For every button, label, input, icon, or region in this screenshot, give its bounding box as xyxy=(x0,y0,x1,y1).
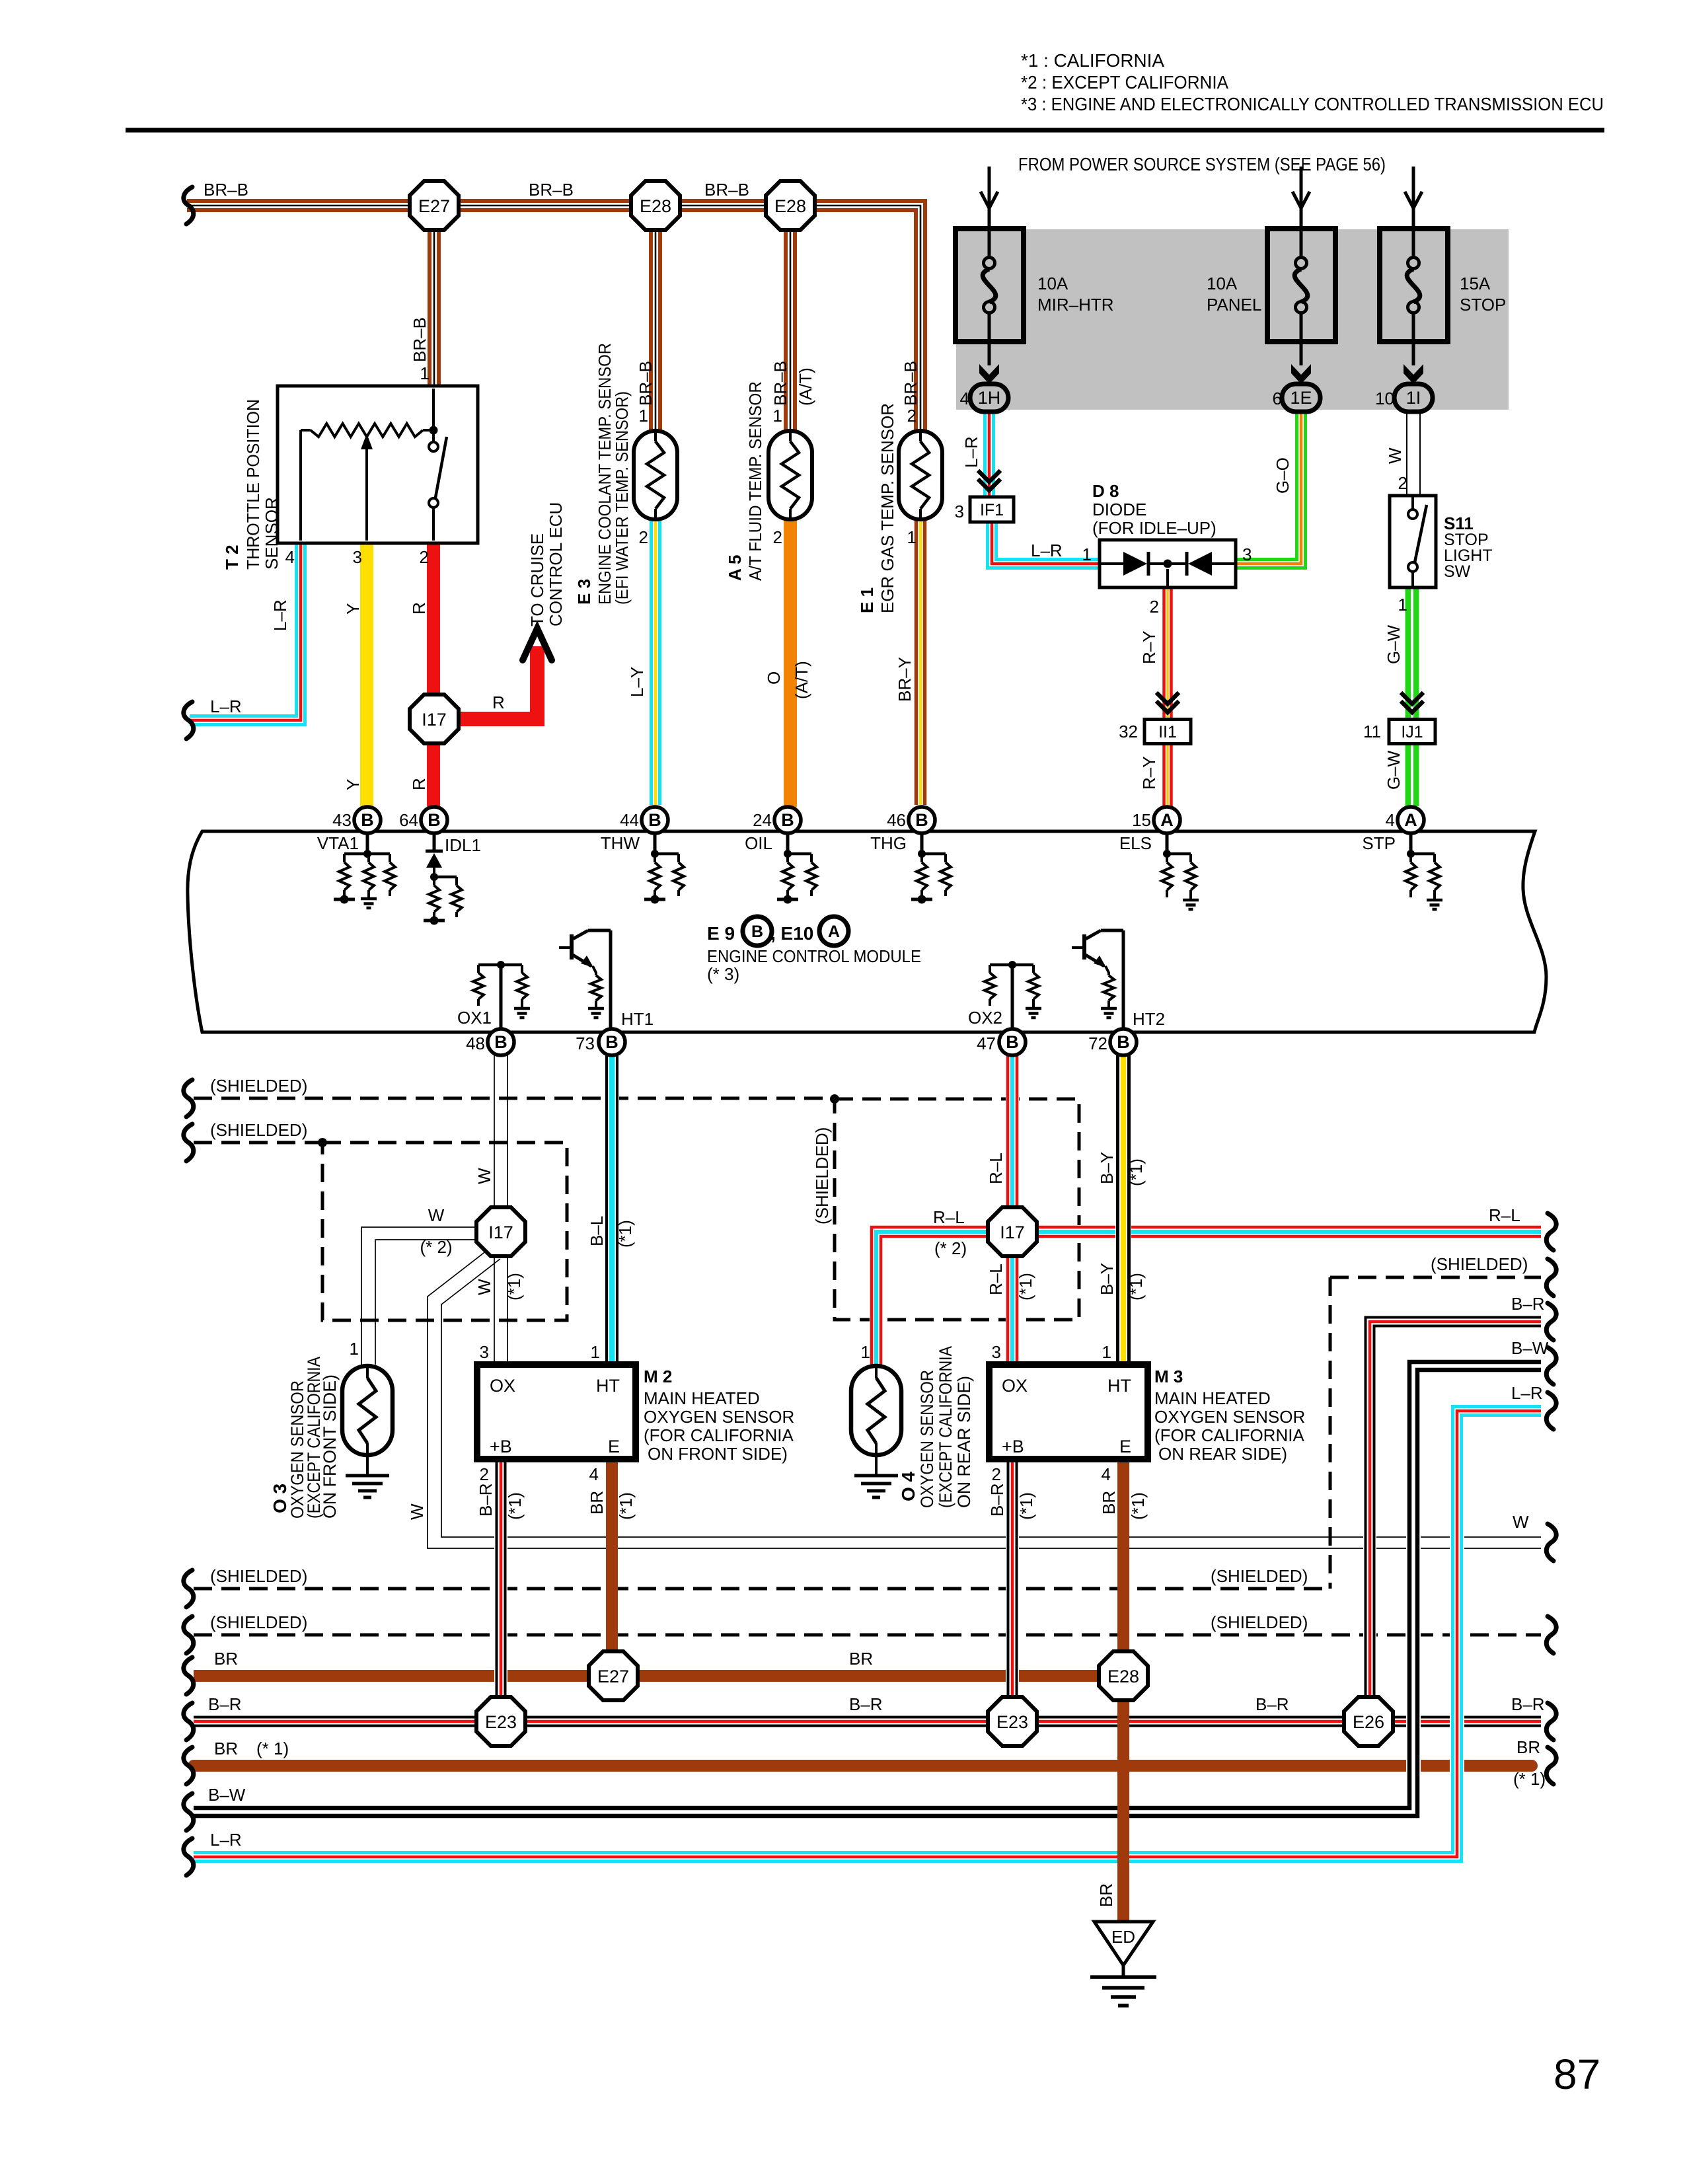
wire R branch to cruise control xyxy=(456,646,537,719)
svg-text:1: 1 xyxy=(773,406,782,426)
svg-text:4: 4 xyxy=(960,389,969,408)
wire W from I17 to O3 line b xyxy=(375,1240,478,1365)
svg-text:(FOR IDLE–UP): (FOR IDLE–UP) xyxy=(1092,518,1217,538)
svg-text:(SHIELDED): (SHIELDED) xyxy=(210,1076,307,1096)
svg-text:IF1: IF1 xyxy=(980,501,1004,519)
svg-text:2: 2 xyxy=(773,527,782,547)
connector I17 on R wire xyxy=(410,695,459,743)
O4 oxygen sensor except california rear xyxy=(851,1366,901,1455)
svg-text:(SHIELDED): (SHIELDED) xyxy=(210,1566,307,1586)
M2 main heated oxygen sensor box xyxy=(477,1365,636,1459)
svg-text:O: O xyxy=(764,671,784,685)
svg-text:2: 2 xyxy=(907,406,917,426)
svg-text:B: B xyxy=(648,810,661,830)
svg-text:II1: II1 xyxy=(1158,723,1177,741)
wire B-R right corner xyxy=(1366,1318,1542,1722)
pin 73 HT1 xyxy=(599,1029,625,1055)
ECU OX1 input circuit xyxy=(473,961,527,1032)
svg-text:W: W xyxy=(428,1205,445,1225)
brace L-R right xyxy=(1546,1392,1556,1429)
svg-text:43: 43 xyxy=(332,810,352,830)
svg-text:3: 3 xyxy=(1242,545,1252,564)
connector E23 b xyxy=(988,1697,1037,1746)
E9 connector B circle xyxy=(743,917,772,946)
svg-text:OX1: OX1 xyxy=(457,1008,492,1028)
wire L-R bus bottom xyxy=(194,1407,1541,1862)
brace BR-B bus xyxy=(184,187,194,224)
wire B-Y from HT2 to M3 HT xyxy=(1118,1055,1129,1365)
svg-text:B: B xyxy=(915,810,928,830)
brace shielded 1 xyxy=(184,1080,194,1117)
svg-text:MIR–HTR: MIR–HTR xyxy=(1037,295,1114,315)
brace shielded 2 xyxy=(184,1124,194,1161)
svg-text:(*1): (*1) xyxy=(1126,1273,1146,1300)
T2 switch feed from pin1 xyxy=(432,389,435,441)
junction dot on dashed line 1 xyxy=(830,1094,839,1104)
svg-text:1E: 1E xyxy=(1290,388,1312,408)
ECU ELS input circuit xyxy=(1162,833,1199,909)
svg-text:THG: THG xyxy=(870,833,907,853)
svg-text:L–R: L–R xyxy=(1511,1383,1543,1403)
svg-text:A: A xyxy=(1404,810,1417,830)
svg-text:B: B xyxy=(428,810,441,830)
svg-text:IJ1: IJ1 xyxy=(1401,723,1423,741)
ECU STP input circuit xyxy=(1405,833,1442,909)
svg-text:10: 10 xyxy=(1375,389,1394,408)
svg-text:15: 15 xyxy=(1132,810,1151,830)
svg-text:HT: HT xyxy=(1107,1376,1131,1396)
wire W shield drain diagonal a xyxy=(428,1251,1541,1548)
svg-text:SENSOR: SENSOR xyxy=(262,497,281,570)
svg-text:3: 3 xyxy=(480,1342,489,1362)
wire W pair OX1 to I17 xyxy=(494,1055,495,1209)
svg-text:OX2: OX2 xyxy=(968,1008,1002,1028)
ECU VTA1 input circuit xyxy=(334,833,395,904)
chevron into IF1 xyxy=(978,471,1000,490)
svg-text:BR: BR xyxy=(1516,1737,1540,1757)
power feed arrow PANEL xyxy=(1292,167,1310,229)
pin 47 OX2 xyxy=(999,1029,1026,1055)
ECU OX2 input circuit xyxy=(985,961,1039,1032)
wire W pair I17 to M2 OX xyxy=(494,1254,495,1365)
ECU E9/E10 engine control module box xyxy=(188,831,1546,1032)
ECU HT2 driver transistor xyxy=(1072,930,1123,1032)
svg-text:THW: THW xyxy=(601,833,640,853)
ECU HT1 driver transistor xyxy=(559,930,611,1032)
svg-text:B–R: B–R xyxy=(1255,1694,1289,1714)
chevron into IJ1 xyxy=(1401,693,1423,712)
svg-text:B: B xyxy=(781,810,794,830)
svg-text:BR: BR xyxy=(1096,1883,1116,1907)
svg-text:T 2: T 2 xyxy=(222,545,242,570)
wire R-Y from II1 to ECU pin 15 xyxy=(1164,743,1172,806)
wire BR-B drop to T2 pin1 xyxy=(430,206,439,389)
svg-text:(*1): (*1) xyxy=(1016,1492,1036,1520)
shielded dashed line bottom A xyxy=(194,1587,1330,1591)
svg-text:B: B xyxy=(751,923,763,941)
brace L-R T2 xyxy=(184,702,194,739)
ECU STP left leg end xyxy=(1409,890,1412,896)
svg-text:3: 3 xyxy=(955,502,964,521)
wire B-R from M2 +B xyxy=(497,1459,505,1721)
svg-text:B–R: B–R xyxy=(849,1694,883,1714)
wire R-L from OX2 through I17 to M3 OX xyxy=(1008,1055,1017,1365)
svg-text:OX: OX xyxy=(1002,1376,1028,1396)
arrowhead to cruise control ECU xyxy=(523,628,552,660)
svg-text:E 3: E 3 xyxy=(574,579,594,605)
svg-text:E23: E23 xyxy=(996,1712,1028,1732)
svg-text:BR: BR xyxy=(587,1491,607,1515)
power source gray block xyxy=(956,229,1509,410)
power feed arrow STOP xyxy=(1405,167,1422,229)
connector I17 oxygen front xyxy=(476,1207,525,1256)
svg-text:R–Y: R–Y xyxy=(1139,630,1159,664)
svg-text:R: R xyxy=(409,778,429,790)
wire G-W from S11 to IJ1 xyxy=(1408,587,1416,718)
E10 connector A circle xyxy=(819,917,848,946)
svg-text:HT: HT xyxy=(596,1376,620,1396)
wire BR-B bus top xyxy=(187,201,925,431)
brace shielded right xyxy=(1546,1259,1556,1296)
brace shielded B right xyxy=(1546,1616,1556,1653)
svg-text:1: 1 xyxy=(861,1342,870,1362)
connector 1I xyxy=(1394,384,1433,412)
svg-text:72: 72 xyxy=(1088,1034,1107,1053)
connector E28 top a xyxy=(631,181,680,230)
D8 diode for idle-up box xyxy=(1100,540,1236,587)
wire BR-B drop to E3 xyxy=(651,206,660,433)
svg-text:(FOR CALIFORNIA: (FOR CALIFORNIA xyxy=(644,1425,794,1445)
shielded dashed vertical right xyxy=(1329,1277,1332,1589)
wire BR-B drop to A5 xyxy=(786,206,795,433)
ED ground triangle xyxy=(1094,1922,1153,1976)
T2 wiper arrow xyxy=(365,447,368,541)
brace B-R bus xyxy=(184,1703,194,1740)
wire R from T2 pin2 xyxy=(427,541,440,805)
ED ground symbol xyxy=(1090,1977,1156,2006)
svg-text:E27: E27 xyxy=(597,1667,629,1686)
svg-text:R–L: R–L xyxy=(1489,1205,1520,1225)
connector 1H xyxy=(970,384,1008,412)
svg-text:I17: I17 xyxy=(422,710,447,730)
T2 potentiometer left leg xyxy=(299,430,302,541)
svg-text:SW: SW xyxy=(1444,562,1471,581)
svg-text:W: W xyxy=(474,1279,494,1295)
svg-text:4: 4 xyxy=(1102,1464,1111,1484)
svg-text:B: B xyxy=(1006,1032,1019,1052)
svg-text:ED: ED xyxy=(1111,1927,1135,1947)
ECU VTA1 ground xyxy=(361,899,377,908)
svg-text:W: W xyxy=(1385,447,1405,464)
pin 43 VTA1 xyxy=(354,807,381,833)
svg-text:B: B xyxy=(361,810,374,830)
svg-text:G–W: G–W xyxy=(1384,624,1404,664)
wire B-W bus bottom xyxy=(194,1362,1541,1816)
svg-text:R: R xyxy=(409,602,429,615)
svg-text:A/T FLUID TEMP. SENSOR: A/T FLUID TEMP. SENSOR xyxy=(745,381,765,581)
svg-text:1: 1 xyxy=(591,1342,600,1362)
shielded dashed box around I17 left xyxy=(322,1143,567,1320)
svg-text:ENGINE CONTROL MODULE: ENGINE CONTROL MODULE xyxy=(707,946,921,966)
svg-text:D 8: D 8 xyxy=(1092,481,1119,501)
svg-text:B–Y: B–Y xyxy=(1097,1263,1117,1295)
brace L-R bus xyxy=(184,1838,194,1875)
svg-text:2: 2 xyxy=(480,1464,489,1484)
junction II1 xyxy=(1144,720,1191,744)
svg-text:B–Y: B–Y xyxy=(1097,1152,1117,1184)
ECU THW input circuit xyxy=(644,833,684,904)
svg-text:MAIN HEATED: MAIN HEATED xyxy=(644,1388,760,1408)
svg-text:E: E xyxy=(1119,1437,1131,1456)
ECU VTA1 right leg end xyxy=(389,890,391,896)
svg-text:(A/T): (A/T) xyxy=(792,661,811,699)
svg-text:L–R: L–R xyxy=(961,436,981,468)
svg-text:ON FRONT SIDE): ON FRONT SIDE) xyxy=(320,1374,340,1519)
svg-text:(*1): (*1) xyxy=(1128,1492,1148,1520)
svg-text:A: A xyxy=(828,923,840,941)
svg-text:E28: E28 xyxy=(1107,1667,1139,1686)
svg-text:L–R: L–R xyxy=(1031,541,1063,560)
wire BR *1 bus bottom xyxy=(194,1760,1532,1772)
svg-text:(* 3): (* 3) xyxy=(707,964,739,984)
svg-text:1H: 1H xyxy=(978,388,1001,408)
svg-text:B–W: B–W xyxy=(208,1785,246,1805)
T2 switch contact top xyxy=(429,442,438,451)
wire W from I17 to O3 line a xyxy=(361,1227,478,1365)
brace R-L right xyxy=(1546,1213,1556,1250)
svg-text:48: 48 xyxy=(466,1034,485,1053)
svg-text:A: A xyxy=(1160,810,1174,830)
wire R-L from I17 to O4 xyxy=(872,1227,988,1365)
svg-text:BR: BR xyxy=(214,1739,238,1758)
svg-text:L–R: L–R xyxy=(210,697,242,716)
svg-text:R–L: R–L xyxy=(986,1263,1006,1295)
svg-text:BR: BR xyxy=(214,1649,238,1669)
svg-text:(*1): (*1) xyxy=(615,1220,635,1248)
T2 switch to pin2 xyxy=(432,508,435,541)
svg-text:(SHIELDED): (SHIELDED) xyxy=(1211,1612,1308,1632)
svg-text:W: W xyxy=(1513,1512,1529,1532)
svg-text:B–R: B–R xyxy=(1511,1294,1545,1314)
brace shielded B xyxy=(184,1616,194,1653)
svg-text:B–L: B–L xyxy=(587,1216,607,1246)
svg-text:BR–B: BR–B xyxy=(901,361,920,406)
svg-text:G–W: G–W xyxy=(1384,750,1404,790)
svg-text:32: 32 xyxy=(1119,722,1138,741)
ECU THG input circuit xyxy=(911,833,951,904)
svg-text:11: 11 xyxy=(1363,722,1381,741)
svg-text:STP: STP xyxy=(1362,833,1396,853)
ECU OIL input circuit xyxy=(777,833,817,904)
brace B-R bus right xyxy=(1546,1703,1556,1740)
T2 switch contact bottom xyxy=(429,498,438,508)
svg-text:THROTTLE POSITION: THROTTLE POSITION xyxy=(243,399,263,570)
wire B-R bus bottom xyxy=(194,1717,1541,1726)
wire B-L from HT1 to M2 HT xyxy=(607,1055,617,1365)
wire G-O from 1E to D8 xyxy=(1236,411,1306,568)
svg-text:BR–B: BR–B xyxy=(204,180,248,200)
svg-text:L–R: L–R xyxy=(270,599,290,631)
svg-text:*3 : ENGINE AND ELECTRONICALL: *3 : ENGINE AND ELECTRONICALLY CONTROLLE… xyxy=(1021,94,1604,114)
T2 throttle position sensor box xyxy=(278,386,478,543)
svg-text:B–R: B–R xyxy=(1511,1694,1545,1714)
svg-text:Y: Y xyxy=(343,779,363,790)
svg-text:B–R: B–R xyxy=(476,1483,496,1517)
svg-text:BR–B: BR–B xyxy=(770,361,790,406)
svg-text:R: R xyxy=(492,693,505,712)
svg-text:OXYGEN SENSOR: OXYGEN SENSOR xyxy=(1154,1407,1305,1427)
svg-text:IDL1: IDL1 xyxy=(445,835,481,855)
svg-text:, E10: , E10 xyxy=(770,923,813,944)
brace BR *1 bus xyxy=(184,1747,194,1784)
svg-text:O 4: O 4 xyxy=(898,1471,918,1501)
E3 engine coolant temp sensor xyxy=(634,431,677,519)
svg-text:A 5: A 5 xyxy=(725,555,745,582)
svg-text:46: 46 xyxy=(887,810,906,830)
O3 ground xyxy=(346,1476,389,1497)
svg-text:+B: +B xyxy=(1002,1437,1024,1456)
svg-text:1: 1 xyxy=(350,1339,359,1359)
svg-text:OXYGEN SENSOR: OXYGEN SENSOR xyxy=(917,1370,937,1508)
svg-text:4: 4 xyxy=(285,547,295,567)
wire G-W from IJ1 to ECU pin 4 xyxy=(1408,743,1416,806)
ECU ELS left leg end xyxy=(1166,890,1168,896)
svg-text:B–R: B–R xyxy=(987,1483,1007,1517)
svg-text:ON REAR SIDE): ON REAR SIDE) xyxy=(1158,1444,1287,1464)
svg-text:B–R: B–R xyxy=(208,1694,242,1714)
ECU IDL1 input circuit xyxy=(424,833,462,925)
svg-text:4: 4 xyxy=(1386,810,1395,830)
wire BR bus bottom xyxy=(194,1670,1123,1682)
svg-text:TO CRUISE: TO CRUISE xyxy=(527,533,547,626)
svg-text:ON REAR SIDE): ON REAR SIDE) xyxy=(954,1376,974,1508)
svg-text:E: E xyxy=(608,1437,620,1456)
svg-text:87: 87 xyxy=(1554,2051,1600,2098)
connector 1E xyxy=(1282,384,1320,412)
svg-text:6: 6 xyxy=(1273,389,1282,408)
svg-text:E28: E28 xyxy=(774,196,806,216)
svg-text:(*1): (*1) xyxy=(1016,1273,1035,1300)
svg-text:(SHIELDED): (SHIELDED) xyxy=(1211,1566,1308,1586)
svg-text:(*1): (*1) xyxy=(505,1492,525,1520)
svg-text:OX: OX xyxy=(490,1376,515,1396)
svg-text:HT1: HT1 xyxy=(621,1009,654,1029)
svg-text:E 9: E 9 xyxy=(707,923,735,944)
svg-text:(*1): (*1) xyxy=(616,1492,636,1520)
wire L-R from IF1 to D8 xyxy=(988,521,1100,568)
svg-text:(SHIELDED): (SHIELDED) xyxy=(210,1612,307,1632)
svg-text:4: 4 xyxy=(589,1464,599,1484)
svg-text:Y: Y xyxy=(343,603,363,615)
junction IJ1 xyxy=(1389,720,1435,744)
svg-text:W: W xyxy=(474,1168,494,1184)
fuse 10A PANEL xyxy=(1267,229,1335,384)
svg-text:73: 73 xyxy=(576,1034,595,1053)
svg-text:MAIN HEATED: MAIN HEATED xyxy=(1154,1388,1271,1408)
svg-text:(FOR CALIFORNIA: (FOR CALIFORNIA xyxy=(1154,1425,1304,1445)
M3 main heated oxygen sensor box xyxy=(989,1365,1148,1459)
shielded dashed line 2 xyxy=(194,1141,322,1145)
svg-text:(* 2): (* 2) xyxy=(420,1237,452,1257)
svg-text:DIODE: DIODE xyxy=(1092,500,1146,519)
svg-text:B: B xyxy=(1117,1032,1130,1052)
brace shielded A xyxy=(184,1570,194,1607)
svg-text:R–Y: R–Y xyxy=(1139,756,1159,790)
svg-text:E 1: E 1 xyxy=(857,587,877,613)
svg-text:1: 1 xyxy=(639,406,648,426)
svg-text:L–Y: L–Y xyxy=(627,667,647,697)
wire R-Y from D8 to II1 xyxy=(1164,587,1172,718)
top horizontal rule xyxy=(126,128,1604,133)
svg-text:EGR GAS TEMP. SENSOR: EGR GAS TEMP. SENSOR xyxy=(878,403,897,613)
pin 44 THW xyxy=(642,807,668,833)
O3 oxygen sensor except california front xyxy=(342,1366,393,1455)
O4 ground xyxy=(854,1476,898,1497)
pin 4 STP xyxy=(1398,807,1424,833)
svg-text:24: 24 xyxy=(753,810,772,830)
svg-text:2: 2 xyxy=(1150,597,1159,617)
connector E26 xyxy=(1344,1697,1393,1746)
connector E28 top b xyxy=(766,181,815,230)
svg-text:64: 64 xyxy=(399,810,418,830)
ground xyxy=(1183,900,1199,909)
svg-text:(* 1): (* 1) xyxy=(1513,1769,1546,1789)
wire W pair OX1 to I17 b xyxy=(507,1055,508,1209)
connector E27 bottom xyxy=(589,1651,638,1700)
T2 junction dot xyxy=(430,426,438,435)
svg-text:1: 1 xyxy=(907,527,917,547)
svg-text:I17: I17 xyxy=(1000,1223,1025,1242)
connector E28 bottom xyxy=(1099,1651,1148,1700)
power feed arrow MIR-HTR xyxy=(981,167,998,229)
svg-text:OIL: OIL xyxy=(745,833,772,853)
svg-text:*1 : CALIFORNIA: *1 : CALIFORNIA xyxy=(1021,50,1164,71)
pin 15 ELS xyxy=(1154,807,1180,833)
svg-text:M 3: M 3 xyxy=(1154,1367,1183,1386)
svg-text:+B: +B xyxy=(490,1437,512,1456)
svg-text:1: 1 xyxy=(1102,1342,1111,1362)
pin 24 OIL xyxy=(774,807,801,833)
svg-text:(SHIELDED): (SHIELDED) xyxy=(210,1120,307,1140)
svg-text:(EXCEPT CALIFORNIA: (EXCEPT CALIFORNIA xyxy=(936,1346,955,1508)
svg-text:BR–B: BR–B xyxy=(636,361,655,406)
T2 switch blade xyxy=(435,437,447,498)
svg-text:HT2: HT2 xyxy=(1133,1009,1165,1029)
svg-text:BR–B: BR–B xyxy=(529,180,574,200)
svg-text:2: 2 xyxy=(639,527,648,547)
svg-text:FROM POWER SOURCE SYSTEM (SEE: FROM POWER SOURCE SYSTEM (SEE PAGE 56) xyxy=(1018,154,1386,174)
wire W pair I17 to M2 OX b xyxy=(507,1254,508,1365)
wire B-R from M3 +B xyxy=(1008,1459,1017,1721)
svg-text:BR: BR xyxy=(849,1649,873,1669)
svg-text:*2 : EXCEPT CALIFORNIA: *2 : EXCEPT CALIFORNIA xyxy=(1021,72,1228,93)
S11 stop light switch box xyxy=(1390,496,1436,587)
wire BR from M3 E to ED ground xyxy=(1117,1459,1129,1922)
wire L-R from 1H xyxy=(985,411,994,497)
svg-text:1: 1 xyxy=(420,363,430,383)
wire BR-Y from E1 xyxy=(917,517,925,805)
shielded dashed line 1 xyxy=(194,1097,835,1100)
junction IF1 xyxy=(970,497,1014,522)
svg-text:B–W: B–W xyxy=(1511,1338,1549,1358)
svg-text:15A: 15A xyxy=(1460,274,1491,293)
ground xyxy=(514,1008,530,1018)
pin 72 HT2 xyxy=(1110,1029,1137,1055)
svg-text:BR–Y: BR–Y xyxy=(895,657,915,702)
svg-text:(* 1): (* 1) xyxy=(256,1739,289,1758)
pin 48 OX1 xyxy=(488,1029,514,1055)
brace BR *1 right xyxy=(1546,1747,1556,1784)
